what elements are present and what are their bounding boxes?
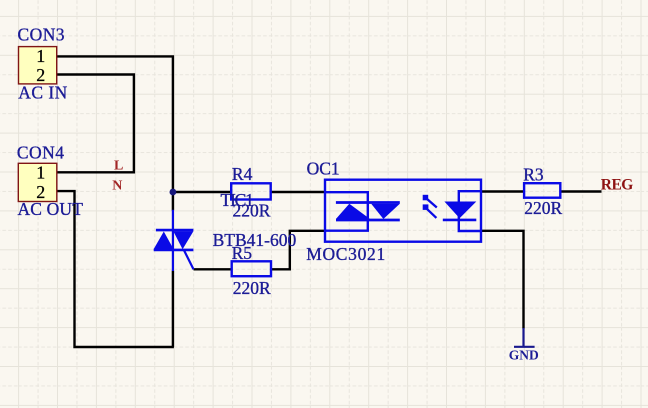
svg-text:MOC3021: MOC3021 (306, 244, 386, 264)
svg-text:N: N (112, 178, 122, 193)
svg-text:AC OUT: AC OUT (18, 199, 84, 219)
svg-text:1: 1 (36, 163, 45, 183)
svg-text:CON4: CON4 (17, 142, 65, 162)
svg-text:1: 1 (36, 46, 45, 66)
svg-text:220R: 220R (233, 278, 271, 298)
svg-text:CON3: CON3 (18, 24, 66, 44)
svg-text:R4: R4 (232, 164, 253, 184)
svg-text:BTB41-600: BTB41-600 (213, 230, 297, 250)
svg-text:220R: 220R (233, 200, 271, 220)
svg-text:R5: R5 (232, 243, 253, 263)
svg-text:REG: REG (601, 176, 633, 193)
svg-text:GND: GND (509, 348, 539, 363)
svg-text:AC IN: AC IN (18, 83, 67, 103)
svg-text:OC1: OC1 (307, 158, 340, 178)
svg-text:R3: R3 (523, 164, 544, 184)
svg-text:220R: 220R (524, 198, 562, 218)
svg-text:L: L (114, 158, 123, 173)
